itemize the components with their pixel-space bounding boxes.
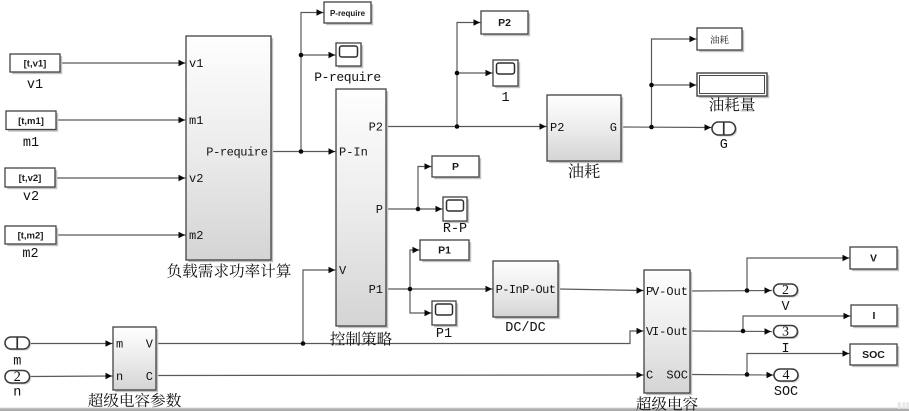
outport 2 V (774, 283, 800, 315)
label 油耗量 (709, 97, 754, 111)
to-workspace SOC (850, 344, 899, 367)
svg-text:P1: P1 (369, 283, 383, 297)
svg-text:[t,m2]: [t,m2] (18, 231, 44, 242)
svg-text:I: I (781, 342, 789, 357)
svg-text:V: V (870, 253, 877, 265)
svg-text:[t,m1]: [t,m1] (18, 116, 44, 127)
to-workspace 油耗 (697, 28, 744, 52)
junction on P wire (416, 207, 421, 212)
wire SOC to outport 4 (690, 372, 774, 378)
svg-text:P-require: P-require (330, 9, 366, 18)
scope 1 (493, 60, 520, 88)
svg-text:1: 1 (501, 91, 509, 106)
svg-text:R-P: R-P (443, 222, 467, 237)
svg-text:P: P (376, 203, 383, 217)
svg-text:C: C (146, 370, 153, 384)
label 超级电容参数 (88, 393, 181, 407)
svg-text:v2: v2 (189, 172, 203, 186)
subsystem 油耗 (547, 95, 623, 163)
svg-text:P1: P1 (436, 327, 452, 342)
svg-text:G: G (720, 138, 728, 153)
svg-text:P-InP-Out: P-InP-Out (496, 283, 556, 297)
wire branch up to P2 To-Workspace (457, 19, 481, 126)
to-workspace P (432, 156, 481, 179)
wire C output to supercap C input (156, 372, 644, 378)
svg-text:n: n (13, 386, 21, 401)
inport m (5, 337, 31, 370)
svg-text:v1: v1 (189, 57, 203, 71)
svg-text:P2: P2 (498, 17, 511, 29)
label 超级电容 (636, 396, 697, 410)
svg-text:I-Out: I-Out (652, 325, 688, 339)
wire m2 to P-require block (56, 232, 186, 238)
junctions on P2 wire (455, 71, 460, 129)
wire branch to scope 1 (457, 70, 493, 76)
wire branch up to P To-Workspace (418, 163, 432, 209)
wire v2 to P-require block (55, 175, 186, 181)
inport n (5, 369, 31, 400)
svg-text:m2: m2 (189, 229, 203, 243)
wire P-Out to supercap P input (558, 287, 644, 293)
wire inport m to supercap params (30, 340, 114, 346)
svg-text:4: 4 (783, 368, 790, 383)
wire P-require output to P-In (271, 148, 336, 154)
to-workspace P-require (324, 2, 373, 25)
svg-text:m1: m1 (23, 136, 39, 151)
svg-text:V: V (339, 264, 347, 278)
junctions on G wire (649, 83, 654, 130)
outport 4 SOC (774, 368, 800, 400)
subsystem DC/DC (493, 261, 560, 319)
wire m1 to P-require block (56, 117, 186, 123)
svg-text:V-Out: V-Out (652, 285, 688, 299)
svg-text:m1: m1 (189, 114, 203, 128)
svg-text:m2: m2 (22, 247, 38, 262)
source [t,v1] (10, 54, 62, 93)
wire branch up to P-require To-Workspace (301, 9, 324, 151)
junction on P-require wire (299, 53, 304, 154)
svg-text:I: I (873, 310, 876, 322)
wire V-Out to outport 2 (690, 287, 772, 293)
wire P2 output to fuel block (386, 123, 547, 129)
svg-text:m: m (116, 338, 123, 352)
wire branch up to control V input (303, 267, 336, 344)
bottom scrollbar area (0, 402, 909, 411)
subsystem 超级电容参数 (113, 327, 158, 392)
wire branch up to SOC To-Workspace (747, 350, 850, 374)
svg-text:SOC: SOC (666, 369, 688, 383)
wire G output to outport G (621, 124, 712, 130)
source [t,v2] (5, 168, 57, 205)
subsystem 负载需求功率计算 (186, 36, 273, 262)
svg-text:v2: v2 (23, 190, 39, 205)
wire branch to fuel display (652, 82, 698, 88)
svg-text:2: 2 (14, 369, 21, 385)
svg-text:DC/DC: DC/DC (505, 321, 546, 336)
junction on V-Out wire (745, 288, 750, 293)
source [t,m2] (5, 226, 58, 262)
label 负载需求功率计算 (167, 263, 290, 278)
scope P1 (432, 301, 458, 327)
svg-text:3: 3 (782, 325, 789, 340)
svg-text:v1: v1 (27, 78, 43, 93)
outport 3 I (774, 325, 800, 357)
to-workspace P1 (420, 240, 471, 262)
svg-text:SOC: SOC (862, 349, 885, 361)
svg-text:P: P (452, 161, 459, 173)
to-workspace I (851, 305, 899, 328)
to-workspace P2 (481, 11, 530, 36)
wire I-Out to outport 3 (690, 328, 772, 334)
svg-text:2: 2 (782, 283, 789, 298)
svg-text:SOC: SOC (774, 385, 798, 400)
wire branch down to P1 scope (410, 289, 432, 316)
scope R-P (443, 197, 469, 223)
subsystem 超级电容 (644, 270, 692, 395)
source [t,m1] (6, 111, 58, 151)
svg-text:P-require: P-require (206, 146, 267, 160)
svg-text:n: n (116, 370, 123, 384)
junction on SOC wire (745, 372, 750, 377)
wire branch up to V To-Workspace (747, 255, 850, 291)
svg-text:G: G (610, 121, 617, 135)
svg-text:m: m (13, 355, 21, 370)
outport G (712, 122, 737, 153)
svg-text:[t,v2]: [t,v2] (19, 173, 42, 184)
svg-text:V: V (781, 300, 790, 315)
wire branch up to I To-Workspace (743, 313, 851, 331)
svg-text:[t,v1]: [t,v1] (24, 59, 47, 70)
display 油耗量 (697, 73, 769, 98)
svg-text:P2: P2 (369, 121, 383, 135)
junction on P1 wire (408, 287, 413, 292)
svg-text:P1: P1 (438, 245, 451, 257)
wire v1 to P-require block (60, 60, 186, 66)
wire branch up to P1 To-Workspace (410, 247, 420, 289)
svg-text:P-require: P-require (314, 70, 381, 85)
wire branch to P-require scope (301, 52, 336, 58)
wire V output to supercap V input (156, 328, 644, 344)
junction on V wire (301, 341, 306, 346)
subsystem 控制策略 (336, 89, 388, 328)
scope P-require display (336, 43, 363, 68)
wire P output to R-P scope (386, 206, 443, 212)
wire P1 output to DC/DC (386, 286, 493, 292)
svg-text:V: V (146, 338, 154, 352)
svg-text:C: C (646, 369, 653, 383)
label 油耗 (568, 163, 599, 178)
junction on I-Out wire (741, 329, 746, 334)
label 控制策略 (330, 331, 392, 345)
to-workspace V (850, 247, 899, 271)
wire branch up to fuel To-Workspace (652, 36, 698, 127)
svg-text:P-In: P-In (339, 146, 368, 160)
wire inport n to supercap params (30, 373, 114, 379)
svg-text:P2: P2 (550, 121, 564, 135)
